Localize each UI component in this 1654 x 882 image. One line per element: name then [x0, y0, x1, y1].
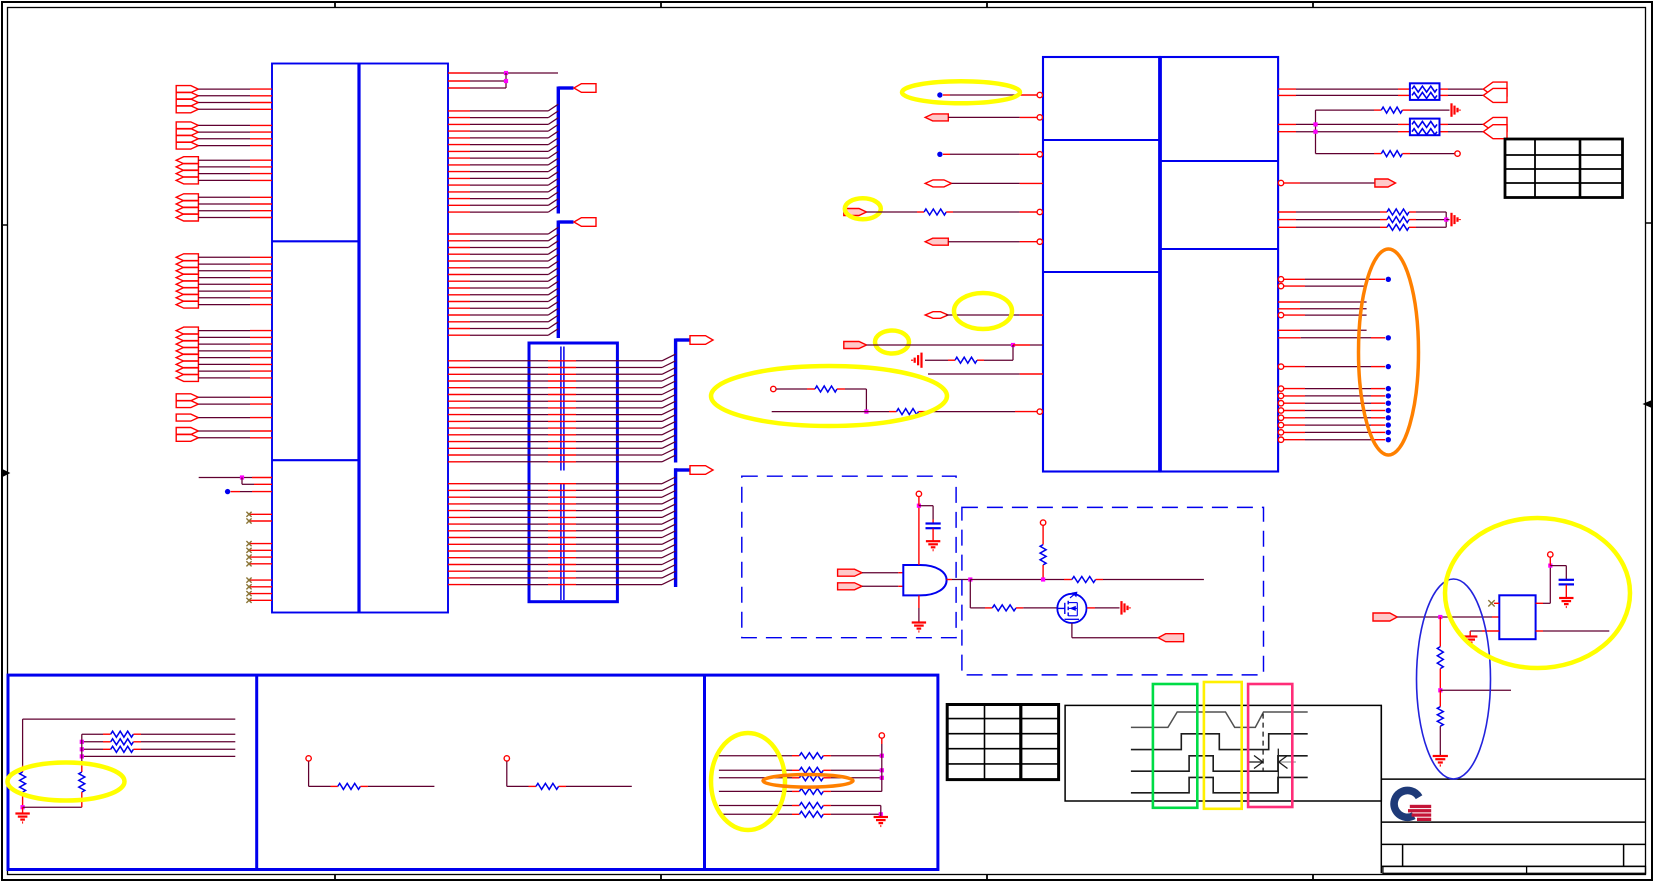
wire (bus 1 member) [448, 198, 470, 200]
U2 pin r8 [1278, 364, 1283, 369]
wire (bus 1 member) [448, 144, 470, 146]
wire (bus 2 member) [448, 334, 470, 336]
port connector P16 [1158, 634, 1183, 642]
resistor pack RP2 [1410, 119, 1440, 136]
wire [198, 196, 250, 198]
IC U2 right section divider 1 [1160, 160, 1278, 162]
table (options) [947, 705, 1058, 780]
wire to capacitor [919, 505, 933, 507]
wire [198, 363, 250, 365]
port connector J4.1 [176, 194, 198, 201]
U2 pin 2 [1020, 116, 1037, 118]
wire (bus 2 member) [448, 267, 470, 269]
wire [198, 108, 250, 110]
company logo (C symbol) [1394, 790, 1419, 817]
wire (bus B member) [448, 584, 470, 586]
right border zone tick [1646, 222, 1653, 224]
right border fold mark [1644, 401, 1651, 407]
no-connect pin stub [250, 593, 272, 595]
IC U2 right section [1160, 57, 1278, 472]
port connector J4.4 [176, 214, 198, 221]
bus connector P12 (double arrow) [1483, 117, 1507, 131]
wire net C [448, 87, 470, 89]
wire (bus B member) [448, 557, 470, 559]
IC U2 left section divider 2 [1043, 271, 1160, 273]
U2 pin 6 [1020, 241, 1037, 243]
junction [968, 577, 972, 581]
ground (sideways) [920, 353, 922, 368]
wire [943, 153, 950, 155]
resistor R19 [536, 783, 559, 789]
wire to ground via resistor R5 [1316, 109, 1375, 111]
port connector J5.7 [176, 294, 198, 301]
timing diagram box [1065, 705, 1381, 801]
wire [198, 173, 250, 175]
timing annotation dashed line [1262, 714, 1264, 772]
highlight ellipse [1445, 518, 1630, 668]
left border zone tick [2, 224, 8, 226]
highlight ellipse [954, 293, 1012, 329]
capacitor C1 [926, 522, 941, 524]
title block rows [1381, 778, 1645, 780]
wire (bus 1 member) [448, 184, 470, 186]
highlight ellipse [711, 366, 947, 426]
IC U1 internal vertical divider [357, 64, 360, 613]
wire [559, 785, 566, 787]
port connector P7 [844, 209, 867, 216]
wire (bus 1 member) [448, 157, 470, 159]
wire net A (top right) [448, 72, 470, 74]
IC U1 left-column divider 2 [272, 459, 359, 461]
bus connector P11 (double arrow) [1483, 82, 1507, 96]
resistor R13 (vertical) [22, 766, 24, 772]
wire to capacitor C2 [1550, 565, 1566, 567]
wire vertical link [505, 73, 507, 88]
no-connect stub [1494, 602, 1499, 604]
port connector J5.3 [176, 267, 198, 274]
port connector J5.1 [176, 254, 198, 261]
port connector J6.2 [176, 334, 198, 341]
junction [1444, 218, 1448, 222]
connector block J10 inner pin column left [560, 347, 562, 471]
bus A horizontal to connector [676, 338, 690, 341]
junction [1438, 688, 1442, 692]
wire [948, 359, 955, 361]
U4 ground pin [1482, 630, 1499, 632]
wire [198, 203, 250, 205]
wire [862, 585, 898, 587]
wire (bus A member) [448, 454, 470, 456]
U2 pin r1 [1278, 277, 1283, 282]
wire divider branch [1439, 617, 1441, 647]
junction [1313, 130, 1317, 134]
wire (bus 2 member) [448, 301, 470, 303]
wire [1439, 726, 1441, 755]
U2 pin 1 [1020, 94, 1037, 96]
wire [1016, 607, 1023, 609]
port connector J1.3 [176, 99, 198, 106]
U2 pin r2 [1278, 283, 1283, 288]
wire [1013, 344, 1030, 346]
wire [881, 738, 883, 744]
port connector J5.5 [176, 281, 198, 288]
wire [198, 357, 250, 359]
IC U2 left section divider 1 [1043, 139, 1160, 141]
wire [862, 572, 898, 574]
wire [1446, 219, 1449, 221]
waveform trace 3 [1131, 756, 1308, 771]
port connector J4.2 [176, 201, 198, 208]
ground (sideways) [1450, 213, 1452, 227]
port connector J1.1 [176, 86, 198, 93]
wire (bus A member) [448, 373, 470, 375]
net stub circle [504, 756, 509, 761]
wire [948, 241, 1019, 243]
bus connector P2 [574, 218, 596, 227]
bus 1 horizontal to connector [558, 86, 573, 89]
wire (bus 1 member) [448, 211, 470, 213]
U2 pin 9 [1020, 373, 1043, 375]
node dot (net stub) [225, 489, 230, 494]
wire vertical [81, 734, 83, 766]
wire [198, 88, 250, 90]
port connector J6.5 [176, 354, 198, 361]
wire (bus 2 member) [448, 274, 470, 276]
junction [504, 79, 508, 83]
port connector J1.4 [176, 106, 198, 113]
port connector J3.2 [176, 163, 198, 170]
wire [82, 755, 236, 757]
wire [198, 396, 250, 398]
no-connect pin stub [250, 513, 272, 515]
wire (bus 1 member) [448, 191, 470, 193]
junction [1548, 564, 1552, 568]
highlight rect (green) [1153, 684, 1197, 808]
wire [948, 116, 1019, 118]
company logo stripes [1410, 805, 1431, 808]
port connector J9.2 [176, 434, 198, 441]
connector block J10 inner pin column right [563, 347, 565, 471]
port connector J3.4 [176, 177, 198, 184]
wire (bus A member) [448, 461, 470, 463]
wire [23, 806, 82, 808]
wire [867, 344, 1014, 346]
connector block J10 body [529, 343, 617, 602]
highlight ellipse [845, 198, 881, 219]
timing annotation arrow right [1248, 761, 1262, 763]
wire with resistor R16 [82, 748, 103, 750]
bus A vertical [674, 339, 677, 463]
wire with resistor R23 [719, 790, 792, 792]
net stub circle (pull-up) [1040, 520, 1045, 525]
wire [1042, 526, 1044, 545]
U4 pin 2 wire [1536, 630, 1543, 632]
wire [198, 166, 250, 168]
U2 pin r9 [1278, 386, 1283, 391]
U2 pin 3 [1020, 153, 1037, 155]
no-connect pin stub [250, 556, 272, 558]
port connector P14 [838, 569, 862, 576]
wire (bus 2 member) [448, 287, 470, 289]
wire [198, 138, 250, 140]
port connector J1.2 [176, 92, 198, 99]
wire vertical link [1315, 110, 1317, 154]
wire (bus B member) [448, 496, 470, 498]
wire [198, 437, 250, 439]
wire [198, 145, 250, 147]
wire (bus B member) [448, 503, 470, 505]
wire [1440, 689, 1511, 691]
junction [917, 504, 921, 508]
wire [932, 529, 934, 542]
highlight ellipse [8, 763, 125, 801]
bus connector P1 [574, 84, 596, 93]
wire (bus 2 member) [448, 247, 470, 249]
wire (bus A member) [448, 407, 470, 409]
resistor R3 [815, 386, 837, 392]
bus 2 vertical [557, 221, 560, 339]
U2 pin r13 [1278, 415, 1283, 420]
wire [952, 182, 1020, 184]
wire (bus A member) [448, 434, 470, 436]
U2 pin r11 [1278, 401, 1283, 406]
port connector P13 [1375, 179, 1396, 187]
junction [1011, 343, 1015, 347]
port connector J6.1 [176, 327, 198, 334]
U2 pin r3 [1278, 301, 1300, 303]
termination resistors R7-R9 [1278, 211, 1296, 213]
resistor pack RP1 [1410, 83, 1440, 100]
wire (bus B member) [448, 510, 470, 512]
wire [946, 314, 1020, 316]
port connector P10 [844, 342, 867, 349]
port connector J2.4 [176, 142, 198, 149]
wire [1042, 565, 1044, 580]
wire (bus A member) [448, 447, 470, 449]
resistor R18 [338, 783, 361, 789]
no-connect pin stub [250, 599, 272, 601]
wire (bus 1 member) [448, 137, 470, 139]
U3 ground pin wire [918, 595, 920, 608]
wire (bus A member) [448, 427, 470, 429]
ground (sideways) [1120, 601, 1122, 615]
table (pinout) [1505, 139, 1623, 198]
highlight ellipse [875, 331, 909, 354]
waveform trace 4 [1131, 777, 1308, 792]
port connector J7.1 [176, 394, 198, 401]
wire (bus B member) [448, 570, 470, 572]
wire [946, 211, 953, 213]
wire (bus A member) [448, 360, 470, 362]
port connector P17 [1373, 613, 1397, 621]
wire (bus A member) [448, 394, 470, 396]
title block cells [1402, 844, 1404, 866]
wire pair to resistor pack RP2 [1278, 123, 1296, 125]
port connector J4.3 [176, 207, 198, 214]
wire [198, 102, 250, 104]
wire [198, 370, 250, 372]
port connector J5.6 [176, 288, 198, 295]
port connector J6.6 [176, 361, 198, 368]
ground [926, 540, 940, 542]
bus connector P3 [690, 336, 713, 345]
wire (bus B member) [448, 543, 470, 545]
resistor R26 (vertical) [1437, 647, 1443, 669]
wire [198, 403, 250, 405]
ground [1463, 635, 1477, 637]
port connector J3.1 [176, 157, 198, 164]
U2 pin r5 [1278, 312, 1283, 317]
U2 pin r7 [1278, 337, 1301, 339]
wire (bus 2 member) [448, 233, 470, 235]
junction [240, 475, 244, 479]
bus 1 vertical [557, 87, 560, 214]
bottom section divider 2 [703, 675, 706, 869]
net stub circle [306, 756, 311, 761]
ground [912, 621, 926, 623]
U2 pin r10 [1278, 393, 1283, 398]
wire [198, 417, 250, 419]
bottom section box [8, 675, 938, 869]
port connector J8.1 [176, 414, 198, 421]
wire (bus 1 member) [448, 130, 470, 132]
junction [1041, 577, 1045, 581]
wire (bus 2 member) [448, 280, 470, 282]
wire [880, 806, 882, 818]
transistor Q1 (MOSFET) [1057, 594, 1086, 623]
option box (dashed) 1 [742, 476, 956, 638]
wire (bus A member) [448, 420, 470, 422]
no-connect pin stub [250, 579, 272, 581]
highlight ellipse (orange) [1359, 249, 1419, 455]
bottom border zone ticks [334, 875, 336, 881]
wire [360, 785, 368, 787]
port connector P6 (bidirectional) [925, 180, 951, 187]
waveform trace 1 (clock) [1131, 712, 1308, 727]
bus 2 horizontal to connector [558, 220, 573, 223]
no-connect pin stub [250, 586, 272, 588]
wire (bus A member) [448, 400, 470, 402]
top border zone ticks [334, 2, 336, 8]
U2 pin 4 [1020, 182, 1043, 184]
wire [198, 430, 250, 432]
wire [837, 388, 845, 390]
wire [928, 373, 1020, 375]
resistor R11 [1040, 545, 1046, 565]
junction [504, 71, 508, 75]
wire [1439, 690, 1441, 706]
waveform trace 2 [1131, 734, 1308, 750]
net stub circle [771, 386, 776, 391]
port connector J5.8 [176, 301, 198, 308]
wire (bus A member) [448, 367, 470, 369]
port connector J2.3 [176, 135, 198, 142]
wire (bus 1 member) [448, 171, 470, 173]
no-connect pin stub [250, 543, 272, 545]
U2 pin r16 [1278, 437, 1283, 442]
wire with resistor R24 [719, 805, 792, 807]
highlight rect (yellow) [1204, 682, 1242, 809]
net stub circle [1549, 557, 1551, 565]
wire (bus B member) [448, 530, 470, 532]
wire (bus 1 member) [448, 164, 470, 166]
wire vertical link [1445, 212, 1447, 227]
no-connect pin stub [250, 563, 272, 565]
wire [198, 277, 250, 279]
wire (bus A member) [448, 441, 470, 443]
wire to test point via resistor R6 [1316, 153, 1375, 155]
wire [198, 377, 250, 379]
wire (bus 2 member) [448, 260, 470, 262]
wire [198, 256, 250, 258]
node dot [937, 92, 942, 97]
port connector J6.7 [176, 368, 198, 375]
port connector J5.4 [176, 274, 198, 281]
ground [22, 807, 24, 813]
U2 pin r15 [1278, 430, 1283, 435]
U2 pin out [1278, 180, 1283, 185]
wire [198, 343, 250, 345]
wire (bus 2 member) [448, 314, 470, 316]
resistor R27 (vertical) [1437, 707, 1443, 727]
wire (bus 1 member) [448, 123, 470, 125]
wire [776, 388, 807, 390]
wire branch down [241, 478, 243, 485]
wire with resistor R22 [719, 777, 792, 779]
IC U2 center divider [1158, 57, 1162, 472]
no-connect pin stub [250, 520, 272, 522]
wire pair to resistor pack RP1 [1278, 88, 1296, 90]
wire [231, 491, 240, 493]
U4 output pin wire [1536, 602, 1543, 604]
wire top net [23, 718, 236, 720]
ground [1559, 597, 1573, 599]
wire [198, 270, 250, 272]
title block bottom strip [1383, 866, 1646, 873]
wire (bus B member) [448, 564, 470, 566]
wire (bus A member) [448, 387, 470, 389]
wire (bus A member) [448, 380, 470, 382]
U2 pin r14 [1278, 422, 1283, 427]
port connector P5 [925, 114, 948, 121]
port connector P15 [838, 583, 862, 590]
node dot [937, 152, 942, 157]
resistor R2 [955, 357, 977, 363]
wire [198, 297, 250, 299]
wire [198, 159, 250, 161]
wire [1096, 579, 1103, 581]
wire (bus 2 member) [448, 328, 470, 330]
wire (bus 1 member) [448, 117, 470, 119]
wire (bus B member) [448, 516, 470, 518]
junction [80, 747, 84, 751]
port connector J9.1 [176, 428, 198, 435]
U2 pin 10 [1015, 411, 1037, 413]
port connector J7.2 [176, 401, 198, 408]
wire [198, 263, 250, 265]
wire [198, 283, 250, 285]
junction [21, 805, 25, 809]
ground (sideways) [1450, 103, 1452, 117]
U3 power pin wire [918, 506, 920, 565]
port connector P8 [925, 238, 948, 245]
ground [874, 816, 888, 818]
U2 pin r6 [1278, 329, 1300, 331]
bus B horizontal to connector [676, 468, 690, 471]
IC U1 left-column divider 1 [272, 240, 359, 242]
U2 pin r4 [1278, 308, 1300, 310]
junction [1313, 122, 1317, 126]
